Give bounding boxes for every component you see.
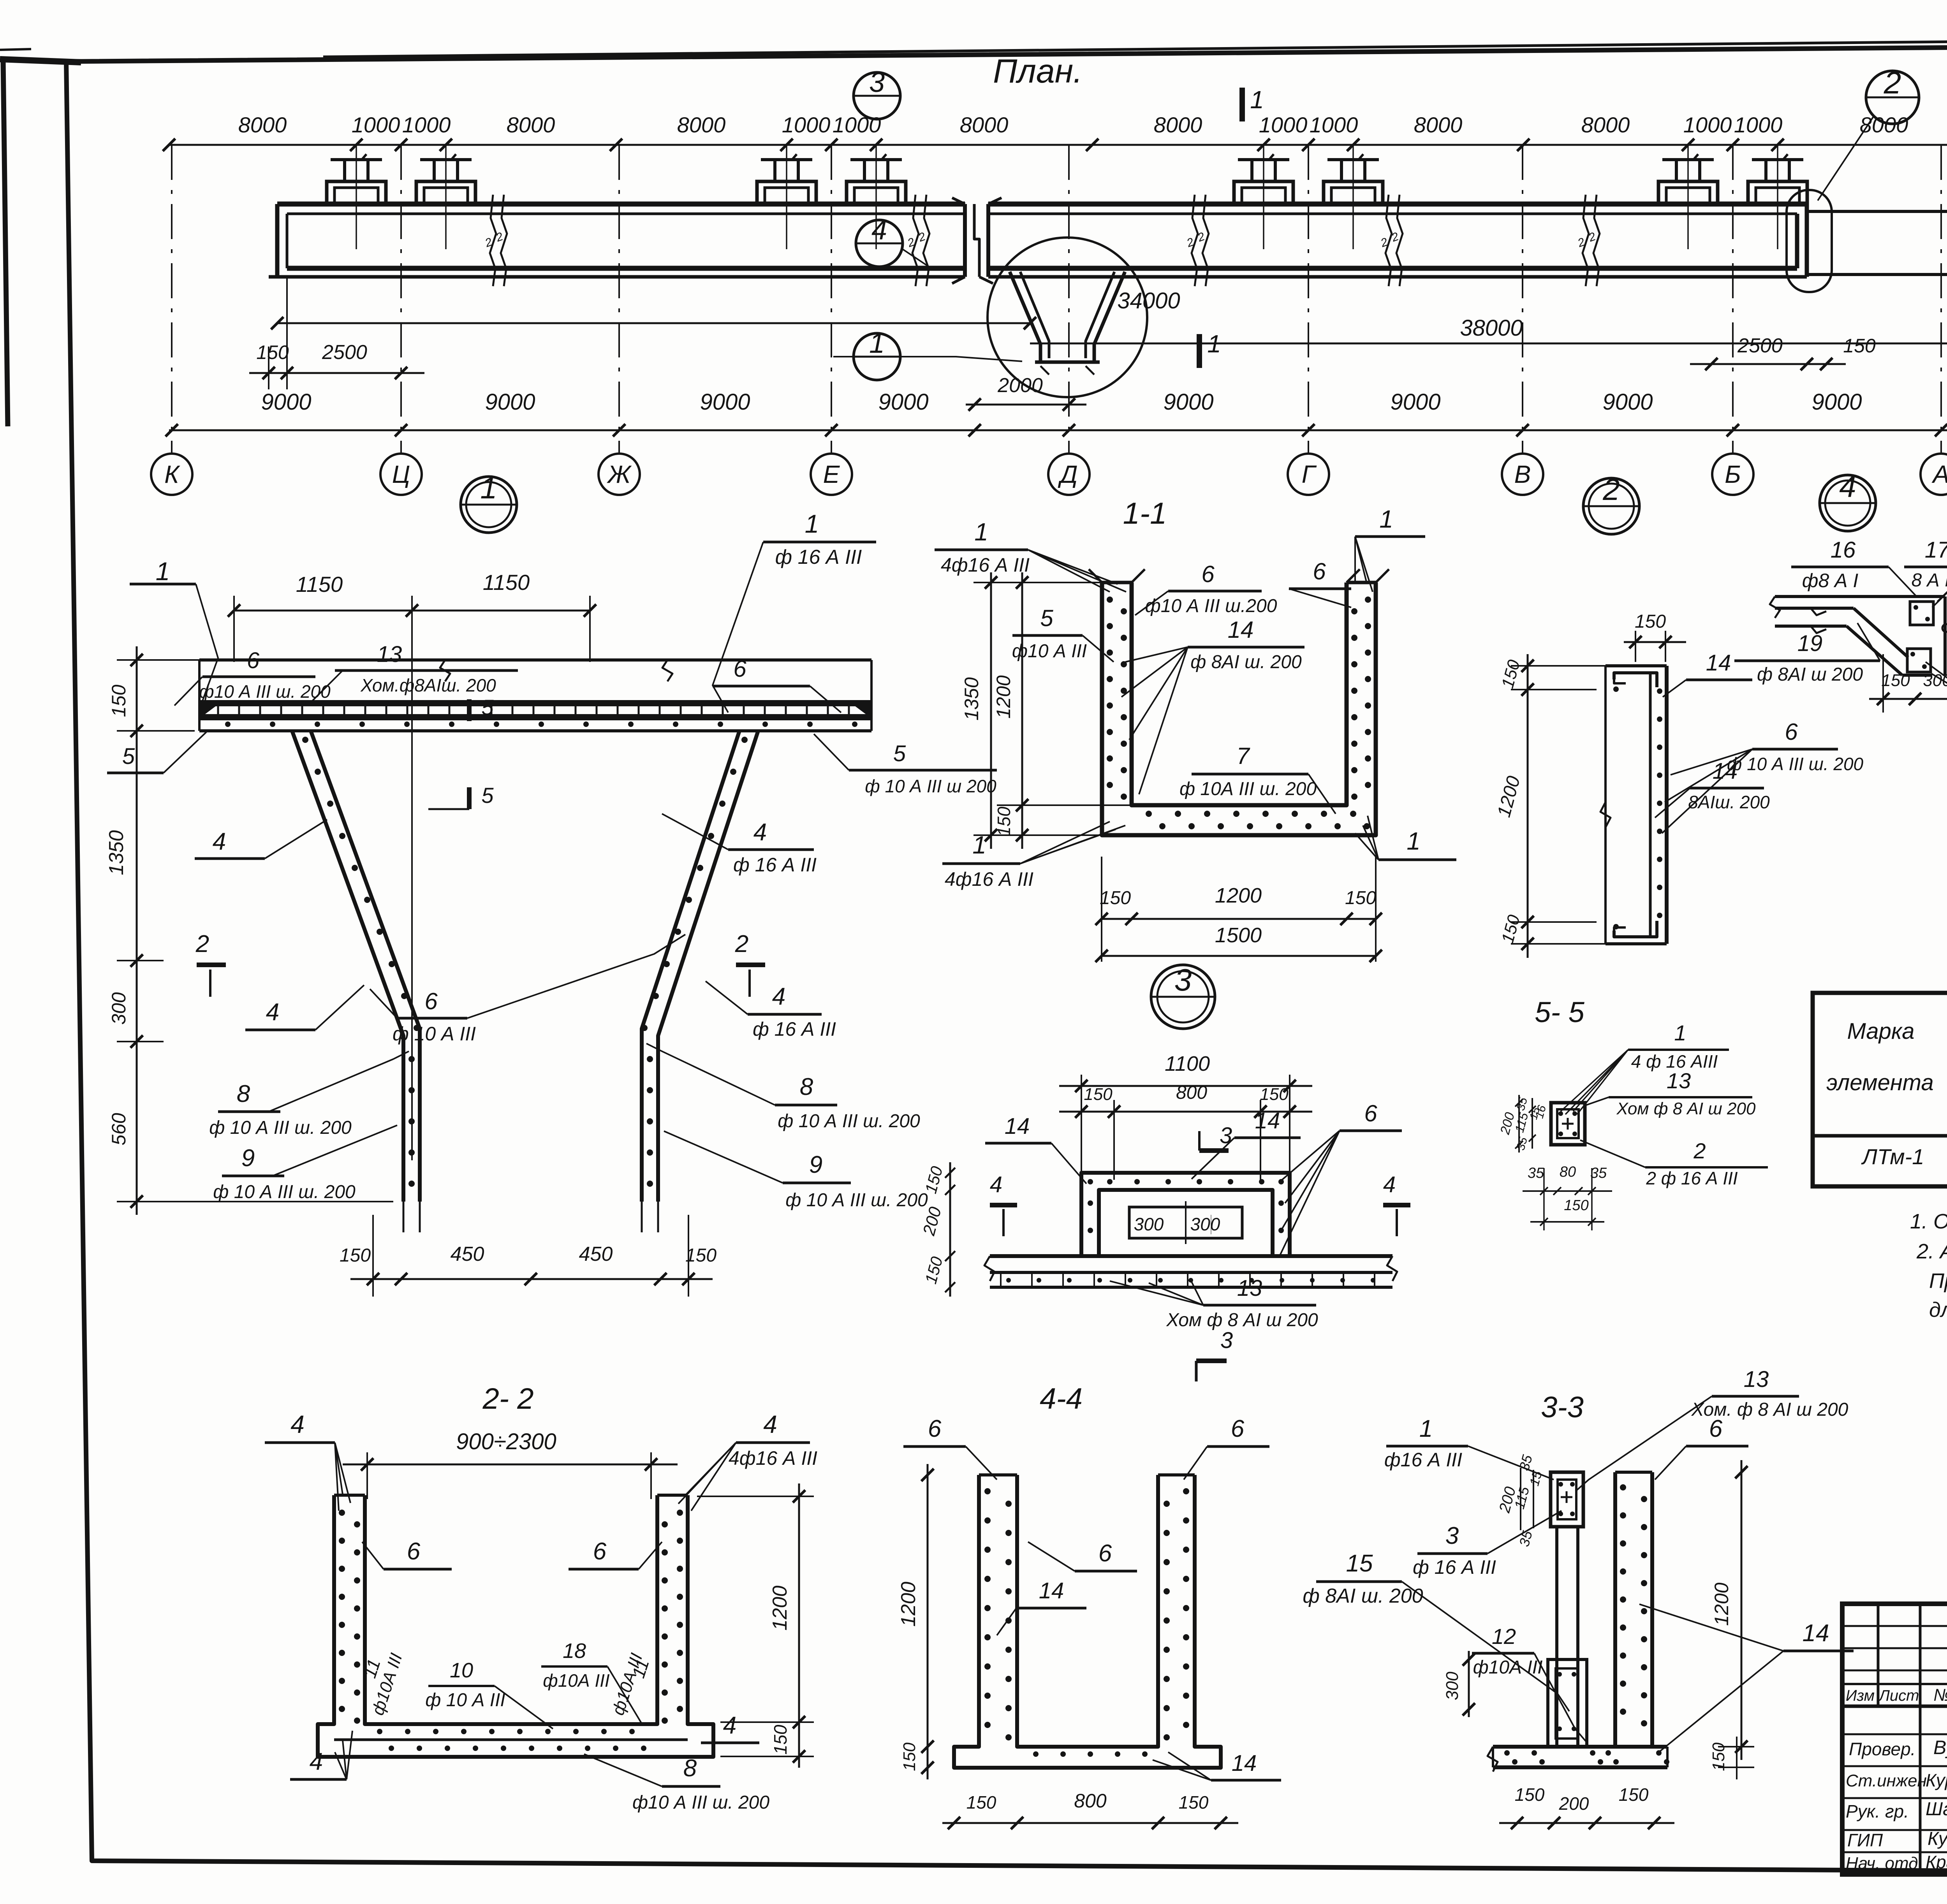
plan trough bar left segment [277,202,965,207]
detail 2 rebar dots [1657,688,1662,694]
section 2-2 right dims [798,1483,800,1768]
svg-text:1000: 1000 [782,113,831,137]
balloon 4 [856,220,903,267]
svg-text:А: А [1931,460,1947,488]
svg-text:ф 8АI ш. 200: ф 8АI ш. 200 [1303,1585,1423,1607]
section 1-1 left dims [990,572,992,849]
svg-text:5- 5: 5- 5 [1535,996,1584,1028]
svg-text:2: 2 [735,931,748,957]
svg-text:9000: 9000 [1390,389,1440,415]
svg-text:4: 4 [1383,1172,1396,1197]
scan left edge streak [3,60,8,426]
svg-text:Ж: Ж [607,460,632,488]
svg-text:15: 15 [1346,1550,1373,1577]
detail 1 right leg [658,731,758,1202]
detail 1 left dim chain [136,646,138,1215]
svg-text:9: 9 [241,1145,255,1172]
svg-text:Е: Е [823,460,840,488]
plan axis lines [171,145,173,452]
svg-text:2- 2: 2- 2 [482,1382,534,1415]
svg-text:6: 6 [1313,558,1326,584]
section 5-5 box [1551,1103,1585,1145]
svg-text:300: 300 [1443,1672,1462,1700]
svg-text:6: 6 [1201,561,1215,587]
svg-text:6: 6 [407,1538,421,1565]
svg-text:300: 300 [1190,1214,1220,1234]
svg-text:1000: 1000 [1734,113,1783,137]
svg-text:1200: 1200 [993,675,1014,718]
svg-text:2: 2 [1602,472,1620,507]
svg-text:14: 14 [1039,1578,1064,1603]
svg-text:8000: 8000 [1581,113,1630,137]
svg-text:150: 150 [1635,611,1666,632]
svg-text:12: 12 [1492,1624,1516,1649]
svg-text:4: 4 [763,1410,777,1438]
svg-text:6: 6 [1785,719,1798,745]
svg-text:6: 6 [1231,1415,1245,1442]
plan bottom 9000 dim line [169,429,1947,431]
joint funnel sketch [1010,272,1040,361]
svg-text:1350: 1350 [105,830,128,875]
svg-text:1: 1 [805,509,819,538]
dim 34000 [277,322,1030,324]
svg-text:Вульф: Вульф [1933,1737,1947,1758]
svg-text:150: 150 [966,1792,996,1812]
svg-text:14: 14 [1706,650,1731,676]
title block signature rows [1842,1733,1947,1735]
svg-text:ф 8АI ш 200: ф 8АI ш 200 [1757,664,1863,685]
svg-text:3: 3 [1445,1522,1459,1549]
svg-text:1200: 1200 [769,1585,791,1631]
svg-text:9000: 9000 [1811,389,1862,415]
svg-text:6: 6 [928,1415,942,1442]
section 1-1 bottom dims [1102,918,1376,920]
svg-text:ф10 А III: ф10 А III [1012,641,1087,662]
section 3-3 left column with box [1551,1472,1583,1527]
svg-text:4: 4 [310,1748,323,1775]
svg-text:Рук. гр.: Рук. гр. [1846,1801,1909,1821]
svg-text:Провер.: Провер. [1849,1739,1915,1759]
svg-text:150: 150 [1260,1085,1289,1104]
svg-text:34000: 34000 [1117,288,1180,313]
svg-text:ЛТм-1: ЛТм-1 [1861,1144,1924,1169]
svg-text:1: 1 [972,831,986,859]
svg-text:ф 10 А III ш. 200: ф 10 А III ш. 200 [785,1190,928,1211]
svg-text:14: 14 [1255,1108,1280,1133]
svg-text:1000: 1000 [1310,113,1358,137]
detail 3 upstand box [1081,1173,1290,1256]
svg-text:ф 10 А III ш. 200: ф 10 А III ш. 200 [209,1117,352,1138]
svg-text:8: 8 [683,1755,697,1782]
svg-text:6: 6 [733,656,746,682]
detail 2 hooks [1614,673,1657,687]
svg-text:4: 4 [723,1712,736,1739]
svg-text:4: 4 [753,819,767,846]
svg-text:ф 10 А III: ф 10 А III [425,1690,505,1710]
section mark 5 lower [467,787,472,809]
svg-text:К: К [164,460,180,488]
section 3-3 top box dims [1520,1468,1521,1530]
svg-text:2: 2 [1884,65,1901,100]
svg-text:150: 150 [1709,1742,1728,1771]
svg-text:При стыковании отдельных отр: При стыковании отдельных отрезков внахле… [1929,1269,1947,1293]
svg-text:9: 9 [809,1151,822,1178]
svg-text:14: 14 [1228,617,1254,643]
svg-text:Хом ф 8 АI ш 200: Хом ф 8 АI ш 200 [1166,1310,1318,1330]
svg-text:Изм: Изм [1846,1687,1875,1704]
svg-text:14: 14 [1005,1114,1030,1139]
svg-text:ф10 А III ш.200: ф10 А III ш.200 [1145,596,1277,616]
svg-text:9000: 9000 [485,389,535,415]
svg-text:6: 6 [593,1538,607,1565]
svg-text:150: 150 [1084,1085,1113,1104]
svg-text:6: 6 [424,988,438,1014]
detail 1 top dim 1150+1150 [234,610,590,612]
svg-text:2500: 2500 [322,341,367,364]
svg-text:38000: 38000 [1460,315,1523,341]
section mark 5 upper [467,699,472,721]
detail 3 left dims [949,1162,951,1297]
detail 1 left leg [292,731,403,1202]
svg-text:5: 5 [893,741,906,766]
detail 2 left dims [1527,654,1529,958]
svg-text:1: 1 [974,518,988,546]
detail 3 slab [990,1254,1392,1258]
svg-text:9000: 9000 [1163,389,1213,415]
balloon 1 [854,333,900,380]
svg-text:35: 35 [1528,1165,1544,1181]
svg-text:150: 150 [685,1245,716,1266]
svg-text:3: 3 [869,67,885,98]
svg-text:ф 10 А III ш. 200: ф 10 А III ш. 200 [213,1182,356,1202]
detail 1 leg rebar dots [302,737,308,743]
svg-text:3: 3 [1220,1123,1232,1148]
plan bottom slab extension right [1807,210,1947,213]
plan top dimension line [169,144,1947,146]
svg-text:9000: 9000 [261,389,311,415]
svg-text:8000: 8000 [1860,113,1908,137]
detail 2 wall [1604,666,1607,944]
svg-text:13: 13 [1744,1367,1769,1392]
svg-text:2000: 2000 [997,374,1043,397]
dim 38000 [1030,343,1947,345]
svg-text:10: 10 [450,1659,473,1682]
svg-text:5: 5 [1040,605,1053,631]
svg-text:4: 4 [990,1172,1002,1197]
dim 2500 150 right [1690,363,1846,365]
svg-text:1: 1 [1407,827,1421,855]
svg-text:1. Опалубку см. на листе КЖ-: 1. Опалубку см. на листе КЖ- 20. [1910,1210,1947,1233]
svg-text:ф 10 А III ш. 200: ф 10 А III ш. 200 [1727,754,1864,774]
detail 3 title balloon [1151,965,1215,1029]
svg-text:18: 18 [563,1639,586,1663]
svg-text:450: 450 [451,1243,484,1265]
svg-text:ф8 А I: ф8 А I [1802,570,1859,591]
svg-text:Марка: Марка [1847,1019,1914,1044]
title block small rows top [1842,1625,1947,1627]
svg-text:1000: 1000 [402,113,451,137]
svg-text:2 ф 16 А III: 2 ф 16 А III [1646,1168,1738,1188]
svg-text:ф 10 А III ш 200: ф 10 А III ш 200 [865,776,996,796]
svg-text:9000: 9000 [700,389,750,415]
svg-text:800: 800 [1176,1082,1207,1103]
svg-text:16: 16 [1831,537,1856,563]
svg-text:4: 4 [266,999,279,1026]
svg-text:5: 5 [481,783,494,808]
svg-text:5: 5 [122,744,135,769]
svg-text:1000: 1000 [1259,113,1308,137]
detail 4 title balloon [1820,475,1876,531]
detail 4 bottom dims [1869,698,1947,700]
svg-text:150: 150 [1179,1792,1209,1812]
detail 2 top dim 150 [1624,641,1686,643]
detail 2 title balloon [1583,478,1639,534]
svg-text:150: 150 [1515,1784,1545,1805]
steel summary frame [1813,993,1947,1186]
scan artifact second top line [323,34,1947,57]
section 3-3 dim 300 [1468,1651,1470,1717]
svg-text:элемента: элемента [1826,1070,1933,1095]
svg-text:80: 80 [1560,1164,1576,1180]
svg-text:Шапиро: Шапиро [1926,1799,1947,1820]
svg-text:900÷2300: 900÷2300 [456,1429,556,1454]
svg-text:13: 13 [1667,1068,1691,1093]
section 5-5 dims left [1518,1095,1520,1153]
svg-text:В: В [1514,460,1531,488]
section 2-2 top dim [343,1464,678,1466]
title block outer [1842,1604,1947,1874]
svg-text:1: 1 [1250,86,1264,114]
svg-text:4ф16 А III: 4ф16 А III [945,868,1033,890]
svg-text:4: 4 [213,828,226,855]
svg-text:длина перепуска должна быть: длина перепуска должна быть не менее 560… [1929,1298,1947,1322]
section 3-3 right wall [1613,1472,1617,1747]
svg-text:ф 10А III ш. 200: ф 10А III ш. 200 [1179,779,1317,799]
svg-text:ф 16 А III: ф 16 А III [1413,1556,1496,1578]
plan trough right end wall [1795,214,1799,268]
svg-text:ф10 А III ш. 200: ф10 А III ш. 200 [632,1792,769,1813]
svg-text:1150: 1150 [296,572,343,597]
svg-text:1: 1 [156,557,170,586]
svg-text:Ст.инжен: Ст.инжен [1846,1771,1927,1790]
svg-text:8АIш. 200: 8АIш. 200 [1688,792,1770,812]
svg-text:Курганова: Курганова [1926,1770,1947,1790]
section 4-4 bottom dims [942,1822,1238,1824]
svg-text:ф10А III: ф10А III [543,1670,610,1691]
detail 1 title balloon [461,477,517,533]
detail 4 bar sketch [1775,595,1945,598]
svg-text:2. Арматура поз.1 заказана: 2. Арматура поз.1 заказана общей длиной. [1916,1240,1947,1263]
svg-text:4: 4 [772,983,785,1010]
svg-text:Нач. отд: Нач. отд [1846,1854,1918,1873]
svg-text:150: 150 [108,685,130,717]
section 3-3 bottom dims [1499,1822,1674,1824]
section 2-2 rebar dots [339,1510,345,1516]
svg-text:1350: 1350 [961,677,982,720]
section 3-3 right dims [1741,1460,1743,1760]
svg-text:300: 300 [108,992,130,1025]
svg-text:Кузнецов: Кузнецов [1928,1828,1947,1849]
svg-text:300: 300 [1134,1214,1164,1234]
svg-text:150: 150 [256,341,289,363]
svg-text:1150: 1150 [483,570,530,595]
svg-text:1: 1 [480,471,497,505]
svg-text:ф10А III: ф10А III [1473,1657,1543,1678]
svg-text:8000: 8000 [960,113,1009,137]
detail 2 break mark [1600,802,1611,827]
svg-text:8: 8 [237,1080,250,1107]
section 3-3 bottom slab [1493,1745,1667,1749]
svg-text:1200: 1200 [897,1582,920,1627]
svg-text:3-3: 3-3 [1541,1391,1584,1424]
svg-text:ф 10 А III: ф 10 А III [393,1023,476,1045]
section 4-4 left dims [927,1464,929,1779]
section 2-2 walls [318,1495,713,1757]
svg-text:3: 3 [1174,963,1192,997]
joint detail blow-up circle [988,238,1147,397]
svg-text:1000: 1000 [833,113,881,137]
svg-text:150: 150 [1843,335,1876,357]
svg-text:35: 35 [1590,1165,1607,1181]
scan edge artifact top-left [0,59,81,62]
svg-text:200: 200 [1559,1793,1589,1814]
svg-text:Г: Г [1302,460,1317,488]
title block columns [1877,1604,1880,1706]
svg-text:8000: 8000 [1154,113,1202,137]
svg-text:8000: 8000 [507,113,555,137]
section 1-1 corner hatches [1089,569,1102,582]
svg-text:150: 150 [770,1725,790,1754]
embedded plate anchors [327,181,386,204]
detail 2 capsule mark on end wall [1787,190,1832,292]
svg-text:1-1: 1-1 [1123,496,1167,530]
svg-text:6: 6 [1098,1540,1112,1567]
svg-text:8 А I: 8 А I [1912,570,1947,591]
svg-text:1000: 1000 [352,113,400,137]
svg-text:9000: 9000 [1602,389,1653,415]
svg-text:3: 3 [1220,1328,1233,1353]
svg-text:1000: 1000 [1683,113,1732,137]
svg-text:7: 7 [1236,743,1250,769]
svg-text:8000: 8000 [238,113,287,137]
svg-text:9000: 9000 [878,389,928,415]
detail 1 top slab [199,658,871,662]
svg-text:150: 150 [994,806,1014,836]
svg-text:План.: План. [993,53,1083,90]
svg-text:2: 2 [195,931,209,957]
svg-text:Д: Д [1058,460,1077,488]
svg-text:4ф16 А III: 4ф16 А III [941,554,1030,576]
svg-text:1500: 1500 [1215,924,1262,947]
svg-text:8000: 8000 [1414,113,1463,137]
svg-text:1: 1 [869,328,885,359]
svg-text:14: 14 [1713,758,1738,784]
svg-text:2500: 2500 [1737,334,1783,357]
svg-text:13: 13 [377,642,402,667]
svg-text:4-4: 4-4 [1040,1382,1083,1415]
svg-text:8: 8 [800,1073,813,1100]
dim 2000 [966,404,1086,406]
detail 3 section marks [1211,1215,1211,1234]
section mark 1 bottom [1197,334,1202,368]
svg-text:Б: Б [1725,460,1741,488]
svg-text:150: 150 [900,1742,919,1771]
svg-text:4: 4 [1839,469,1856,503]
svg-text:ф 16 А III: ф 16 А III [753,1018,836,1040]
balloon 2 big [1866,71,1919,124]
svg-text:ф 16 А III: ф 16 А III [775,546,862,568]
svg-text:1: 1 [1674,1021,1686,1045]
plan bar break marks [490,195,496,286]
section mark 1 top [1239,88,1245,121]
svg-text:4: 4 [290,1410,305,1438]
svg-text:13: 13 [1237,1276,1262,1301]
section 1-1 walls [1102,582,1376,835]
detail 1 bottom dims 150 450 450 150 [350,1278,713,1280]
dim 150 2500 left [249,372,424,374]
svg-text:ф 10 А III ш. 200: ф 10 А III ш. 200 [778,1111,920,1131]
section 4-4 rebar dots [984,1488,991,1494]
svg-text:1200: 1200 [1711,1582,1732,1626]
svg-text:ГИП: ГИП [1847,1830,1883,1850]
svg-text:1: 1 [1419,1415,1433,1442]
plan axis circles [151,454,192,495]
svg-text:150: 150 [1345,888,1376,908]
svg-text:6: 6 [1364,1100,1377,1126]
svg-text:17: 17 [1925,537,1947,563]
svg-text:150: 150 [1619,1784,1649,1805]
svg-text:Хом.ф8АIш. 200: Хом.ф8АIш. 200 [360,675,496,695]
svg-text:5: 5 [481,695,494,720]
svg-text:150: 150 [1100,888,1131,908]
svg-text:800: 800 [1074,1790,1107,1812]
balloon 3 [854,72,900,119]
svg-text:ф 16 А III: ф 16 А III [733,854,817,876]
svg-text:6: 6 [247,648,260,673]
svg-text:2: 2 [1693,1139,1706,1163]
svg-text:Лист: Лист [1878,1687,1919,1704]
svg-text:4ф16 А III: 4ф16 А III [729,1447,817,1469]
svg-text:ф 8АI ш. 200: ф 8АI ш. 200 [1190,652,1302,672]
section 5-5 dims bottom [1523,1190,1612,1192]
plan trough bar right segment [988,202,1807,207]
detail 3 top dims [1059,1085,1312,1087]
svg-text:ф16 А III: ф16 А III [1384,1449,1462,1471]
svg-text:6: 6 [1709,1415,1723,1442]
section 1-1 rebar dots [1107,597,1113,603]
svg-text:ф10 А III ш. 200: ф10 А III ш. 200 [199,681,331,702]
section 3-3 lower box 12 [1548,1659,1587,1747]
svg-text:14: 14 [1803,1620,1829,1647]
svg-text:19: 19 [1797,631,1823,656]
svg-text:1: 1 [1379,505,1393,533]
svg-text:Красабин: Красабин [1926,1852,1947,1872]
svg-text:Ц: Ц [392,460,410,488]
svg-text:4: 4 [871,215,887,246]
svg-text:Хом ф 8 АI ш 200: Хом ф 8 АI ш 200 [1616,1099,1756,1118]
svg-text:14: 14 [1232,1751,1257,1776]
svg-text:1100: 1100 [1165,1052,1210,1075]
svg-text:560: 560 [108,1113,130,1146]
svg-text:150: 150 [1564,1197,1588,1214]
svg-text:150: 150 [1881,671,1910,690]
svg-text:№ докум.: № докум. [1933,1686,1947,1705]
svg-text:1200: 1200 [1215,884,1262,907]
svg-text:150: 150 [340,1245,371,1266]
detail 4 weld symbol [1942,624,1947,632]
svg-text:8000: 8000 [677,113,726,137]
svg-text:450: 450 [579,1243,613,1265]
